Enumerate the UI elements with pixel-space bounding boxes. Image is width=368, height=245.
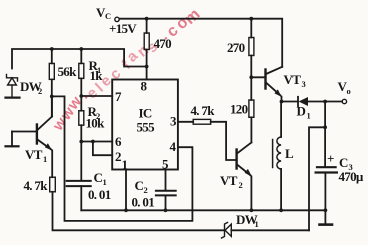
svg-text:L: L bbox=[285, 146, 294, 161]
node junction R2 bottom pin6 bbox=[79, 140, 83, 144]
ground bbox=[324, 210, 326, 224]
svg-text:VT: VT bbox=[25, 147, 43, 162]
wire R1 bottom lead bbox=[80, 78, 82, 110]
node junction L ground bbox=[279, 208, 283, 212]
svg-text:C: C bbox=[105, 11, 111, 21]
transistor VT2 bbox=[235, 150, 237, 169]
wire VT2 base path bbox=[211, 122, 237, 160]
svg-text:3: 3 bbox=[170, 114, 177, 129]
svg-text:120: 120 bbox=[230, 102, 248, 117]
svg-text:4. 7k: 4. 7k bbox=[191, 103, 216, 118]
IC 555 box bbox=[112, 80, 178, 170]
wire 470 top lead bbox=[146, 19, 148, 33]
svg-text:8: 8 bbox=[141, 79, 148, 94]
svg-text:470µ: 470µ bbox=[339, 169, 364, 184]
svg-text:56k: 56k bbox=[58, 64, 78, 79]
svg-text:1: 1 bbox=[103, 177, 107, 187]
svg-text:4. 7k: 4. 7k bbox=[24, 178, 49, 193]
transistor VT1 bbox=[12, 131, 37, 133]
inductor L bbox=[280, 102, 282, 138]
wire emitter to D1 bbox=[282, 101, 299, 103]
svg-text:555: 555 bbox=[137, 120, 156, 135]
capacitor C3 bbox=[317, 166, 336, 168]
node junction VT3 emitter bbox=[280, 100, 284, 104]
wire ground rail bbox=[81, 209, 325, 211]
resistor 270 bbox=[249, 38, 254, 56]
node junction R1 top bbox=[79, 47, 83, 51]
terminal Vo bbox=[342, 99, 346, 103]
node junction 56k bottom bbox=[50, 95, 54, 99]
node junction 56k top bbox=[50, 47, 54, 51]
resistor 56k bbox=[49, 63, 54, 79]
wire 120 top lead bbox=[250, 77, 252, 100]
ground T VT1 base bbox=[6, 145, 19, 147]
wire R1 top lead bbox=[80, 49, 82, 63]
node junction DW1 stub bbox=[323, 125, 327, 129]
svg-text:C: C bbox=[339, 155, 348, 170]
wire top +15V rail bbox=[119, 19, 282, 67]
wire 270 top lead bbox=[250, 19, 252, 38]
terminal Vc bbox=[115, 17, 119, 21]
wire 470 bottom lead bbox=[146, 50, 148, 67]
svg-text:4: 4 bbox=[170, 139, 177, 154]
wire 56k top lead bbox=[51, 49, 53, 63]
wire pin1 bbox=[125, 170, 127, 211]
svg-text:1k: 1k bbox=[90, 68, 104, 83]
node junction pin1 ground bbox=[124, 208, 128, 212]
node junction pin2 branch bbox=[91, 140, 95, 144]
svg-text:+15V: +15V bbox=[109, 21, 137, 36]
wire pin3 output bbox=[178, 121, 193, 123]
svg-text:VT: VT bbox=[220, 173, 238, 188]
node junction C3 ground bbox=[324, 208, 328, 212]
svg-text:1: 1 bbox=[307, 111, 311, 121]
resistor R2 bbox=[79, 111, 84, 126]
svg-text:3: 3 bbox=[302, 79, 306, 89]
svg-text:10k: 10k bbox=[86, 116, 106, 131]
diode D1 bbox=[297, 97, 299, 106]
wire 56k bottom lead bbox=[51, 79, 53, 116]
wire bias rail upper-left bbox=[12, 49, 147, 80]
node junction VT2 emitter ground bbox=[250, 208, 254, 212]
svg-text:0. 01: 0. 01 bbox=[88, 187, 111, 202]
svg-text:1: 1 bbox=[255, 219, 259, 229]
node junction 270 top bbox=[249, 17, 253, 21]
svg-text:0. 01: 0. 01 bbox=[132, 195, 155, 210]
zener DW1 bbox=[222, 223, 232, 239]
wire output down bbox=[324, 102, 326, 167]
svg-text:+: + bbox=[327, 151, 334, 166]
svg-text:6: 6 bbox=[115, 134, 122, 149]
wire 270 bottom lead bbox=[250, 56, 252, 78]
resistor R1 bbox=[79, 63, 84, 78]
zener DW2 bbox=[6, 75, 20, 98]
node junction C2 ground bbox=[164, 208, 168, 212]
wire pin6 bbox=[81, 141, 112, 143]
node junction VT3 base bbox=[249, 75, 253, 79]
wire reset branch bbox=[52, 96, 193, 220]
resistor 4.7k left bbox=[50, 177, 56, 192]
wire pin2 branch bbox=[93, 142, 112, 156]
capacitor C2 bbox=[165, 170, 167, 191]
svg-text:2: 2 bbox=[115, 149, 121, 164]
transistor VT3 bbox=[251, 76, 265, 78]
resistor 4.7k output bbox=[193, 119, 211, 124]
svg-text:2: 2 bbox=[239, 180, 243, 190]
wire R2 bottom lead bbox=[80, 125, 82, 141]
svg-text:VT: VT bbox=[284, 72, 302, 87]
wire DW1 to riser bbox=[231, 229, 309, 231]
svg-text:C: C bbox=[135, 178, 144, 193]
node junction R1 bottom pin7 bbox=[79, 94, 83, 98]
svg-text:270: 270 bbox=[227, 40, 245, 55]
resistor 470 bbox=[144, 33, 149, 50]
wire D1 to Vo bbox=[308, 101, 342, 103]
wire pin7 bbox=[81, 95, 112, 97]
node junction output down bbox=[323, 100, 327, 104]
svg-text:IC: IC bbox=[139, 106, 152, 121]
svg-text:C: C bbox=[94, 170, 103, 185]
wire DW1 stub bbox=[309, 127, 325, 230]
resistor 120 bbox=[249, 100, 254, 117]
watermark www.elecfans.com bbox=[49, 6, 204, 135]
node junction 470 bottom pin8 bbox=[145, 65, 149, 69]
svg-text:7: 7 bbox=[115, 89, 122, 104]
svg-text:D: D bbox=[297, 104, 306, 119]
svg-text:2: 2 bbox=[144, 185, 148, 195]
node junction 470 top bbox=[145, 17, 149, 21]
svg-text:1: 1 bbox=[43, 154, 47, 164]
svg-text:2: 2 bbox=[38, 86, 42, 96]
wire DW1 rail bbox=[53, 192, 225, 231]
capacitor C1 bbox=[80, 142, 82, 181]
svg-text:o: o bbox=[347, 86, 351, 96]
svg-text:470: 470 bbox=[154, 36, 172, 51]
